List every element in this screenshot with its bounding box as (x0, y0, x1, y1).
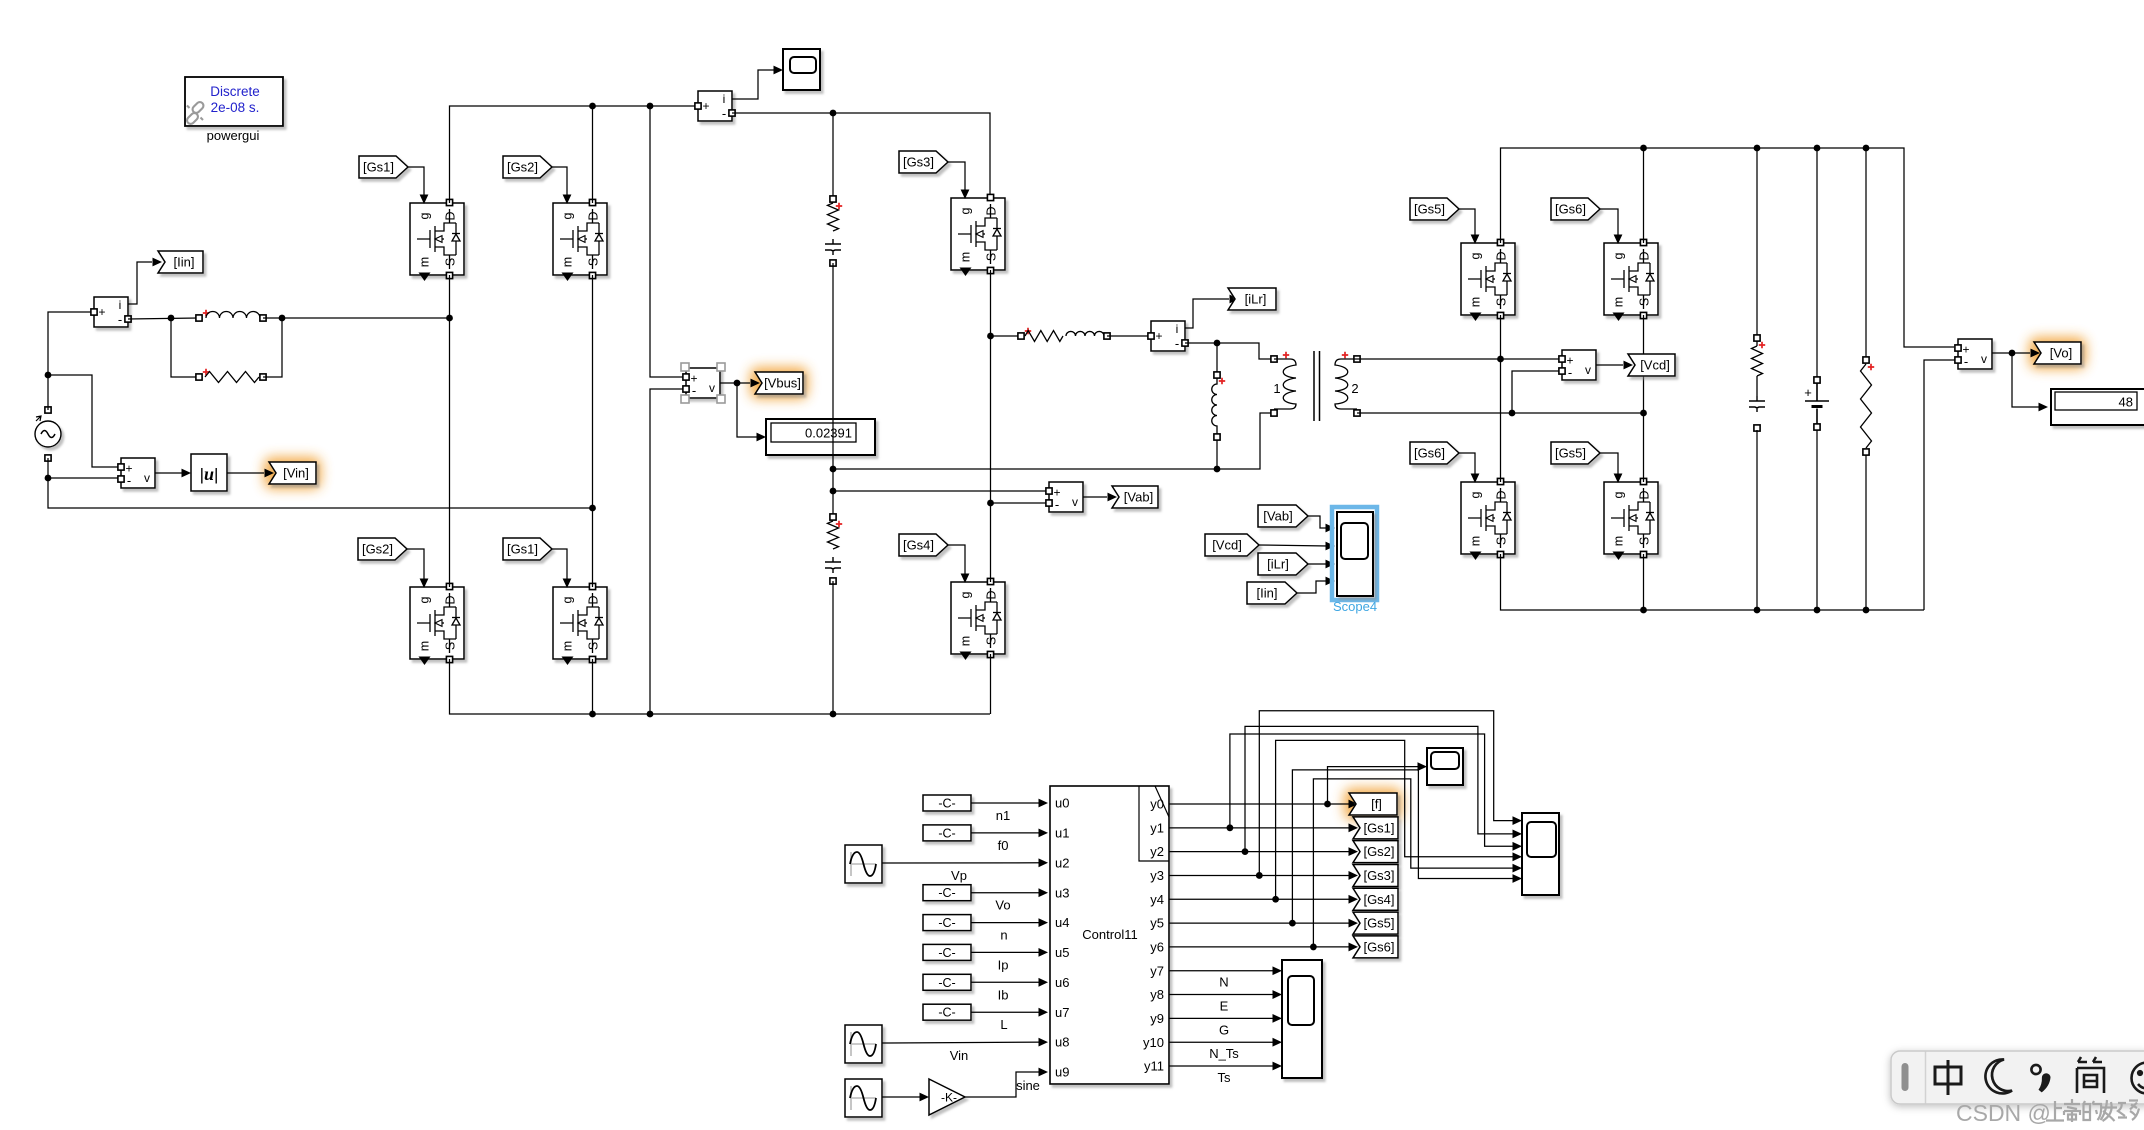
svg-text:0.02391: 0.02391 (805, 426, 852, 441)
node: Vcd- tap (1509, 410, 1516, 417)
from tag [Gs1] lower (503, 538, 552, 560)
resonant branch right port (1104, 333, 1110, 339)
svg-text:L: L (1000, 1017, 1007, 1032)
svg-text:[Vbus]: [Vbus] (764, 376, 801, 391)
MOSFET Q10 [Gs5] (leg E bottom) (1604, 482, 1658, 554)
wire Vbus- to bottom rail (650, 389, 683, 714)
wire Vcd v to goto (1596, 364, 1623, 366)
svg-text:m: m (1469, 297, 1483, 307)
svg-text:S: S (587, 258, 601, 266)
svg-text:y5: y5 (1150, 916, 1164, 931)
svg-text:y7: y7 (1150, 963, 1164, 978)
from tag [iLr] scope feed (1258, 553, 1308, 575)
svg-text:CSDN @: CSDN @ (1956, 1100, 2051, 1126)
svg-text:powergui: powergui (207, 128, 260, 143)
wire iLr i-output to [iLr] goto (1185, 299, 1229, 328)
wire y1 to goto [Gs1] (1169, 827, 1351, 829)
svg-text:y9: y9 (1150, 1011, 1164, 1026)
wire [Gs2] to M2 gate (552, 167, 567, 196)
svg-text:2e-08 s.: 2e-08 s. (211, 100, 260, 115)
svg-text:D: D (985, 206, 999, 215)
wire Vin to u8 (882, 1041, 1043, 1044)
goto tag [Gs5] control (1353, 912, 1398, 934)
Rload top port (1863, 357, 1869, 363)
wire y6 to goto [Gs6] (1169, 946, 1351, 948)
goto tag [Gs4] control (1353, 888, 1398, 910)
svg-text:+: + (1804, 385, 1812, 400)
wire Lm top (1216, 343, 1218, 372)
svg-text:u9: u9 (1055, 1065, 1069, 1080)
svg-text:y0: y0 (1150, 797, 1164, 812)
wire Vo v to goto and display (1992, 352, 2030, 354)
Control11 chart overlay (1139, 786, 1169, 861)
node: source bottom junction (45, 475, 52, 482)
svg-text:g: g (1469, 491, 1483, 498)
svg-text:G: G (1219, 1022, 1229, 1037)
svg-text:-: - (127, 473, 131, 488)
svg-text:S: S (985, 253, 999, 261)
wire Vcd- to secondary- (1512, 371, 1559, 413)
svg-text:v: v (1981, 352, 1987, 366)
from tag [Gs6] lower (1410, 442, 1459, 464)
goto tag [f] control (highlighted) (1349, 793, 1397, 815)
goto tag [Gs3] control (1353, 864, 1398, 886)
wire snubber1 top (832, 113, 834, 196)
wire sine to gain (882, 1096, 924, 1098)
wire R branch to merge node (263, 318, 282, 377)
wire output top rail (1501, 148, 1955, 347)
svg-text:[Vcd]: [Vcd] (1640, 358, 1670, 373)
wire output bottom rail (1501, 554, 1925, 610)
svg-text:+: + (702, 99, 709, 113)
scope control (bottom) (1282, 960, 1322, 1078)
wire node to Vin+ (48, 375, 121, 467)
voltage measurement Vbus (block, selected) (686, 368, 720, 398)
svg-text:g: g (1469, 252, 1483, 259)
wire constant n to u4 (971, 922, 1043, 924)
R branch left port (196, 374, 202, 380)
constant block n1 (923, 795, 971, 811)
IME zhong glyph (1935, 1060, 1961, 1095)
svg-text:[Gs4]: [Gs4] (903, 538, 934, 553)
resonant branch left port (1018, 333, 1024, 339)
svg-text:[Gs2]: [Gs2] (1363, 844, 1394, 859)
svg-text:-C-: -C- (938, 976, 955, 990)
MOSFET Q8 [Gs6] (leg E top) (1604, 243, 1658, 315)
from tag [Gs2] upper (503, 156, 552, 178)
RC load bottom port (1754, 425, 1760, 431)
snubber1 top port (830, 196, 836, 202)
svg-text:g: g (1612, 491, 1626, 498)
wire rail to battery (1816, 148, 1818, 378)
node: y2 to scope2 port2 tap (1242, 848, 1249, 855)
parallel resistor R1 (input) (205, 372, 259, 383)
scope Idc (top) (783, 49, 820, 90)
wire y0 to scope3 (1328, 767, 1422, 804)
wire [Iin] to Scope4 in4 (1297, 581, 1328, 593)
T1 primary - port (1271, 410, 1277, 416)
svg-text:-C-: -C- (938, 946, 955, 960)
AC voltage source Vin (35, 421, 61, 447)
svg-text:i: i (119, 298, 122, 312)
AC source - port (45, 455, 51, 461)
snubber resistor R3 (828, 521, 839, 549)
svg-text:-: - (1964, 354, 1968, 369)
svg-text:D: D (1638, 490, 1652, 499)
node: mid wire B (830, 488, 837, 495)
node: leg B midpoint (589, 505, 596, 512)
node: y0 to scope3 tap (1324, 801, 1331, 808)
svg-text:-: - (118, 312, 122, 327)
from tag [Gs5] lower (1551, 442, 1600, 464)
svg-text:[Gs3]: [Gs3] (903, 155, 934, 170)
MOSFET Q4 [Gs1] (leg B bottom) (553, 587, 607, 659)
svg-text:u2: u2 (1055, 855, 1069, 870)
node: source top junction (45, 372, 52, 379)
snubber2 bottom port (830, 578, 836, 584)
L branch right port (260, 315, 266, 321)
svg-text:m: m (959, 252, 973, 262)
svg-text:-C-: -C- (938, 797, 955, 811)
wire constant f0 to u1 (971, 832, 1043, 834)
svg-text:+: + (98, 305, 105, 319)
svg-text:[Gs1]: [Gs1] (363, 160, 394, 175)
from tag [Iin] scope feed (1247, 582, 1297, 604)
wire Vin v-output to abs block (155, 472, 186, 474)
svg-text:g: g (1612, 252, 1626, 259)
wire leg E bottom to rail (1643, 554, 1645, 610)
svg-text:g: g (959, 207, 973, 214)
svg-text:y3: y3 (1150, 868, 1164, 883)
svg-text:S: S (587, 642, 601, 650)
wire rail to Vbus+ (650, 106, 683, 377)
wire L branch to bridge leg A midpoint (263, 317, 449, 319)
wire snubber1 to mid junctions (crosses display) (832, 263, 834, 514)
node: rail leg E (1640, 145, 1647, 152)
wire y1 to scope2 port3 (1230, 734, 1516, 846)
goto tag [Vbus] (highlighted) (755, 372, 803, 394)
wire branch split down to R branch (171, 318, 198, 377)
node: y5 to scope2 port6 tap (1289, 920, 1296, 927)
svg-text:S: S (1638, 298, 1652, 306)
svg-text:[Gs3]: [Gs3] (1363, 868, 1394, 883)
wire Vab v to goto (1083, 496, 1107, 498)
wire Rload to bottom rail (1865, 455, 1867, 610)
from tag [Gs3] (899, 151, 948, 173)
MOSFET Q6 [Gs4] (leg C bottom) (951, 582, 1005, 654)
Rload bottom port (1863, 449, 1869, 455)
svg-text:u1: u1 (1055, 826, 1069, 841)
wire [Gs4] to M6 gate (948, 545, 965, 575)
from tag [Gs6] upper (1551, 198, 1600, 220)
svg-text:-: - (1568, 365, 1572, 380)
wire leg D midpoint (1500, 315, 1502, 482)
display block Vo value 48 (2051, 389, 2144, 425)
wire secondary+ to leg D midpoint (1357, 358, 1500, 360)
svg-text:y6: y6 (1150, 940, 1164, 955)
svg-text:-C-: -C- (938, 916, 955, 930)
wire y10 signal N_Ts (1169, 1041, 1276, 1043)
wire [Gs6]lower to M9 gate (1459, 453, 1475, 477)
wire [Vab] to Scope4 in1 (1308, 516, 1328, 528)
goto tag [Vin] (highlighted) (269, 462, 316, 484)
wire y2 to scope2 port2 (1245, 726, 1516, 851)
svg-text:S: S (1495, 537, 1509, 545)
svg-text:[Gs6]: [Gs6] (1414, 446, 1445, 461)
from tag [Gs1] upper (359, 156, 408, 178)
wire y11 signal Ts (1169, 1065, 1276, 1067)
node: Vo signal split (2009, 350, 2016, 357)
goto tag [Iin] (158, 251, 203, 273)
svg-text:-K-: -K- (941, 1091, 957, 1105)
svg-text:[Gs6]: [Gs6] (1363, 940, 1394, 955)
wire rail to Rload (1865, 148, 1867, 358)
transformer T1 core (1314, 351, 1320, 421)
svg-text:u0: u0 (1055, 796, 1069, 811)
wire [Gs5]lower to M10 gate (1600, 453, 1618, 477)
wire leg A bottom source to bottom rail (450, 659, 991, 714)
svg-text:[Gs2]: [Gs2] (362, 542, 393, 557)
voltage measurement Vo (block) (1958, 339, 1992, 369)
svg-text:+: + (1155, 329, 1162, 343)
wire [Gs6] to M8 gate (1600, 209, 1618, 238)
wire y5 to scope2 port6 (1292, 770, 1516, 923)
resonant inductor Lr (1066, 331, 1104, 336)
svg-text:-: - (1055, 497, 1059, 512)
svg-text:u7: u7 (1055, 1005, 1069, 1020)
node: bottom rail leg E (1640, 607, 1647, 614)
node: rail snubber tap (830, 110, 837, 117)
svg-text:i: i (723, 92, 726, 106)
resonant resistor Rr (1025, 331, 1063, 342)
sine wave source Vp (845, 845, 882, 883)
wire resonant branch to iLr measure (1107, 335, 1148, 337)
snubber resistor R2 (828, 203, 839, 231)
svg-text:D: D (444, 595, 458, 604)
voltage measurement Vab (block) (1049, 482, 1083, 512)
svg-text:m: m (959, 636, 973, 646)
wire leg A source to leg A bottom drain (449, 275, 451, 587)
svg-text:m: m (561, 257, 575, 267)
svg-text:g: g (561, 212, 575, 219)
goto tag [Vo] (highlighted) (2034, 342, 2081, 364)
Lm bottom port (1214, 434, 1220, 440)
svg-text:Vo: Vo (995, 898, 1010, 913)
svg-text:[Vin]: [Vin] (283, 466, 309, 481)
svg-text:[iLr]: [iLr] (1245, 292, 1267, 307)
from tag [Gs2] lower (358, 538, 407, 560)
wire [iLr] to Scope4 in3 (1308, 563, 1328, 565)
svg-text:y2: y2 (1150, 844, 1164, 859)
wire Vbus v to goto and display (720, 382, 750, 384)
svg-text:S: S (1495, 298, 1509, 306)
current measurement Iin (block) (94, 297, 128, 327)
abs block |u| (191, 454, 227, 491)
wire gain to u9 (965, 1072, 1043, 1097)
node: Lm tap top (1214, 340, 1221, 347)
goto tag [iLr] (1228, 288, 1276, 310)
svg-text:D: D (587, 595, 601, 604)
sine wave source for gain (845, 1079, 882, 1117)
wire top DC rail (450, 106, 699, 203)
svg-text:sine: sine (1016, 1078, 1040, 1093)
wire y8 signal E (1169, 994, 1276, 996)
L branch left port (196, 315, 202, 321)
constant block f0 (923, 825, 971, 841)
svg-text:[Gs6]: [Gs6] (1555, 202, 1586, 217)
svg-text:[Iin]: [Iin] (174, 255, 195, 270)
svg-text:D: D (444, 211, 458, 220)
svg-text:v: v (144, 471, 150, 485)
node: rail Rload (1863, 145, 1870, 152)
wire [Gs3] to M5 gate (948, 162, 965, 191)
wire y7 signal N (1169, 970, 1276, 972)
wire constant L to u7 (971, 1011, 1043, 1013)
svg-text:m: m (1612, 297, 1626, 307)
node: rail leg B (589, 103, 596, 110)
svg-text:v: v (709, 381, 715, 395)
sine wave source Vin meas (845, 1025, 882, 1063)
svg-text:-: - (692, 383, 696, 398)
svg-text:[Gs5]: [Gs5] (1414, 202, 1445, 217)
goto tag [Vab] (1112, 486, 1158, 508)
svg-text:m: m (418, 641, 432, 651)
svg-text:m: m (1469, 536, 1483, 546)
svg-text:D: D (985, 590, 999, 599)
Lm top port (1214, 372, 1220, 378)
svg-text:m: m (561, 641, 575, 651)
current measurement iLr (block) (1151, 321, 1185, 351)
wire Iin i-output to [Iin] goto (128, 262, 152, 304)
wire y4 to goto [Gs4] (1169, 898, 1351, 900)
constant block Ib (923, 974, 971, 990)
svg-text:u3: u3 (1055, 885, 1069, 900)
wire mid A to transformer primary- (833, 413, 1271, 469)
svg-text:[Iin]: [Iin] (1257, 586, 1278, 601)
wire y5 to goto [Gs5] (1169, 922, 1351, 924)
wire leg B drain to rail (592, 106, 594, 203)
svg-text:i: i (1176, 322, 1179, 336)
node: Vbus signal split (734, 380, 741, 387)
constant block Vo (923, 885, 971, 901)
R branch right port (260, 374, 266, 380)
svg-text:1: 1 (1273, 381, 1280, 396)
svg-text:-: - (722, 106, 726, 121)
svg-text:v: v (1072, 495, 1078, 509)
svg-text:2: 2 (1351, 381, 1358, 396)
from tag [Gs5] upper (1410, 198, 1459, 220)
wire constant Ip to u5 (971, 951, 1043, 953)
wire iLr- to transformer primary+ (1185, 343, 1271, 359)
snubber capacitor C1 (825, 239, 841, 255)
node: bottom rail Rload (1863, 607, 1870, 614)
node: y6 to scope2 port5 tap (1310, 944, 1317, 951)
svg-text:[Gs1]: [Gs1] (507, 542, 538, 557)
svg-text:S: S (985, 637, 999, 645)
node: leg D midpoint (1497, 356, 1504, 363)
IME smiley icon (2132, 1063, 2144, 1094)
battery + port (1814, 377, 1820, 383)
wire abs to [Vin] goto (227, 472, 264, 474)
scope Scope4 (selected) (1332, 507, 1377, 600)
node: branch merge (279, 315, 286, 322)
MOSFET Q1 [Gs1] (leg A top) (410, 203, 464, 275)
wire y6 to scope2 port5 (1313, 779, 1516, 947)
wire y3 to scope2 port1 (1259, 711, 1516, 876)
wire [Vcd] to Scope4 in2 (1259, 545, 1328, 546)
wire Vbus signal to display (737, 383, 761, 437)
scope control (small top) (1427, 748, 1463, 785)
wire y4 to scope2 port4 (1276, 740, 1516, 899)
node: rail Vbus tap (647, 103, 654, 110)
goto tag [Gs2] control (1353, 841, 1398, 863)
svg-text:-C-: -C- (938, 1006, 955, 1020)
svg-text:Scope4: Scope4 (1333, 599, 1377, 614)
voltage measurement Vcd wires (1501, 358, 1560, 360)
IME moon icon (1985, 1059, 2012, 1093)
svg-text:D: D (1495, 490, 1509, 499)
node: bottom rail leg B (589, 711, 596, 718)
wire y2 to goto [Gs2] (1169, 851, 1351, 853)
MOSFET Q3 [Gs2] (leg A bottom) (410, 587, 464, 659)
constant block L (923, 1004, 971, 1020)
svg-text:D: D (1495, 251, 1509, 260)
series inductor L1 (input) (206, 312, 260, 318)
wire [Gs2]lower to M3 gate (407, 549, 424, 580)
svg-text:D: D (1638, 251, 1652, 260)
svg-text:D: D (587, 211, 601, 220)
wire AC+ to node and Iin measure (48, 312, 91, 410)
svg-text:[Vab]: [Vab] (1124, 490, 1153, 505)
T1 secondary + port (1354, 356, 1360, 362)
svg-text:[Gs5]: [Gs5] (1363, 916, 1394, 931)
from tag [Vab] scope feed (1258, 505, 1308, 527)
node: leg C Vab- tap (987, 500, 994, 507)
wire [Gs5] to M7 gate (1459, 209, 1475, 238)
display block Vbus value (766, 419, 875, 455)
MOSFET Q5 [Gs3] (leg C top) (951, 198, 1005, 270)
snubber capacitor C2 (825, 557, 841, 573)
wire [Gs1] to M1 gate (408, 167, 424, 196)
snubber1 bottom port (830, 260, 836, 266)
MOSFET Q2 [Gs2] (leg B top) (553, 203, 607, 275)
wire Vo signal to display 48 (2012, 353, 2043, 407)
from tag [Gs4] (899, 534, 948, 556)
wire leg E midpoint (1643, 315, 1645, 482)
node: bottom rail RC (1754, 607, 1761, 614)
svg-text:|u|: |u| (200, 464, 219, 484)
constant block n (923, 915, 971, 931)
svg-text:[f]: [f] (1371, 797, 1382, 812)
node: branch split (168, 315, 175, 322)
snubber2 top port (830, 514, 836, 520)
IME jian glyph (2077, 1057, 2104, 1093)
svg-text:48: 48 (2119, 395, 2133, 410)
AC source + port (45, 407, 51, 413)
node: bottom rail Vbus (647, 711, 654, 718)
wire leg C midpoint (990, 270, 992, 582)
svg-text:m: m (418, 257, 432, 267)
goto tag [Gs1] control (1353, 817, 1398, 839)
node: leg C resonant tap (987, 333, 994, 340)
svg-text:[Vab]: [Vab] (1263, 509, 1292, 524)
node: bottom rail battery (1814, 607, 1821, 614)
svg-text:y8: y8 (1150, 987, 1164, 1002)
MOSFET Q9 [Gs6] (leg D bottom) (1461, 482, 1515, 554)
svg-text:Ts: Ts (1218, 1070, 1232, 1085)
node: y4 to scope2 port4 tap (1272, 896, 1279, 903)
wire constant Ib to u6 (971, 981, 1043, 983)
